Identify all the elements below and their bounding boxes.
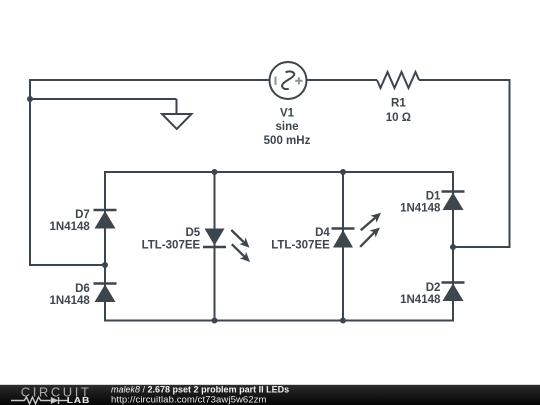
svg-text:LTL-307EE: LTL-307EE — [142, 239, 201, 251]
diode D7 — [94, 210, 117, 229]
wire left riser — [29, 79, 31, 265]
wire top rail of bridge — [105, 171, 453, 173]
svg-text:R1: R1 — [391, 98, 406, 110]
junction node D4 bottom — [340, 318, 346, 324]
LED D4 — [332, 229, 355, 248]
wire left column — [104, 171, 106, 322]
svg-text:malek8 / 2.678 pset 2 problem: malek8 / 2.678 pset 2 problem part II LE… — [111, 384, 289, 394]
V1 plus terminal — [295, 77, 302, 84]
LED D4 arrow 1 — [361, 213, 381, 231]
wire bottom rail of bridge — [105, 320, 453, 322]
svg-text:V1: V1 — [280, 107, 295, 119]
wire D5 column — [214, 172, 216, 321]
svg-text:D2: D2 — [426, 282, 441, 294]
svg-text:1N4148: 1N4148 — [50, 221, 91, 233]
svg-text:D7: D7 — [75, 209, 90, 221]
logo diode glyph — [51, 397, 59, 404]
wire top rail left of V1 — [30, 79, 270, 81]
svg-text:1N4148: 1N4148 — [50, 295, 91, 307]
wire ground riser — [176, 99, 178, 114]
svg-text:D4: D4 — [315, 227, 330, 239]
wire to ground — [30, 98, 177, 100]
junction node D7-D6 — [102, 262, 108, 268]
LED D5 arrow 2 — [232, 244, 250, 262]
voltage source V1 — [270, 62, 307, 99]
LED D5 — [203, 229, 226, 248]
V1 minus terminal — [275, 77, 277, 86]
LED D4 arrow 2 — [360, 228, 380, 247]
svg-text:D5: D5 — [185, 227, 200, 239]
logo waveform — [11, 397, 68, 404]
svg-text:LTL-307EE: LTL-307EE — [271, 239, 330, 251]
LED D5 arrow 1 — [231, 230, 249, 248]
wire D4 column — [342, 172, 344, 321]
svg-text:1N4148: 1N4148 — [400, 294, 441, 306]
ground — [162, 114, 192, 129]
diode D6 — [94, 284, 117, 303]
junction node D5 bottom — [212, 318, 218, 324]
svg-text:D6: D6 — [75, 283, 90, 295]
diode D2 — [442, 283, 465, 302]
svg-text:http://circuitlab.com/ct73awj5: http://circuitlab.com/ct73awj5w62zm — [111, 394, 267, 405]
svg-text:sine: sine — [275, 121, 298, 133]
footer bar — [0, 385, 540, 405]
svg-text:10 Ω: 10 Ω — [386, 112, 411, 124]
resistor R1 — [377, 72, 419, 88]
wire V1 to R1 — [307, 79, 378, 81]
wire right column — [452, 171, 454, 322]
diode D1 — [442, 192, 465, 211]
junction node D5 top — [212, 169, 218, 175]
svg-text:LAB: LAB — [67, 396, 90, 405]
wire right riser to D1-D2 node — [453, 246, 510, 248]
wire left riser to D7-D6 node — [29, 264, 105, 266]
svg-text:1N4148: 1N4148 — [400, 203, 441, 215]
svg-text:500 mHz: 500 mHz — [264, 135, 311, 147]
svg-text:D1: D1 — [426, 190, 441, 202]
wire R1 to right corner — [419, 79, 510, 81]
junction node left riser — [27, 96, 33, 102]
junction node D1-D2 — [450, 244, 456, 250]
wire right riser — [509, 79, 511, 248]
junction node D4 top — [340, 169, 346, 175]
